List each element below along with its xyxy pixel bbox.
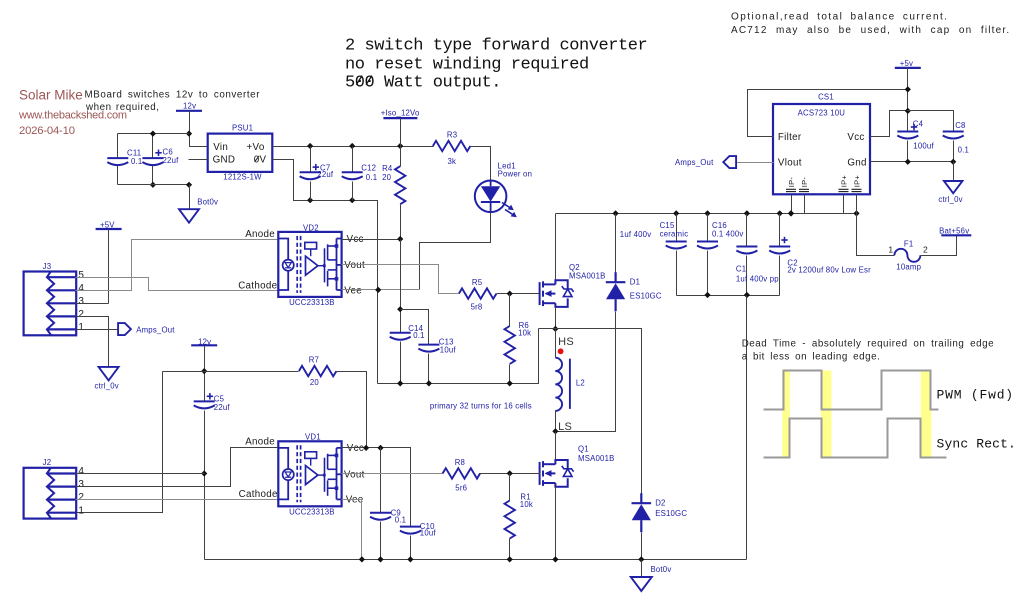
svg-text:PSU1: PSU1 [232, 123, 253, 132]
svg-text:0.1 400v: 0.1 400v [712, 230, 744, 239]
svg-text:Sync Rect.: Sync Rect. [937, 437, 1017, 452]
svg-text:1uf 400v pp: 1uf 400v pp [736, 274, 779, 283]
svg-text:Dead Time - absolutely require: Dead Time - absolutely required on trail… [742, 339, 994, 350]
svg-text:3: 3 [78, 479, 84, 490]
svg-text:10uf: 10uf [440, 346, 457, 355]
svg-text:0.1: 0.1 [131, 157, 142, 166]
svg-text:1: 1 [78, 505, 84, 516]
svg-text:Bot0v: Bot0v [197, 197, 218, 206]
svg-text:D1: D1 [630, 278, 640, 287]
svg-text:Gnd: Gnd [847, 158, 866, 169]
svg-text:Optional,read total balance cu: Optional,read total balance current. [731, 12, 948, 23]
svg-text:a bit less on leading edge.: a bit less on leading edge. [742, 352, 881, 363]
svg-text:UCC23313B: UCC23313B [289, 508, 335, 517]
svg-text:100uf: 100uf [913, 142, 934, 151]
svg-text:1: 1 [888, 245, 893, 255]
svg-text:0.1: 0.1 [366, 173, 377, 182]
svg-text:ctrl_0v: ctrl_0v [95, 381, 119, 390]
svg-text:ACS723 10U: ACS723 10U [798, 109, 846, 118]
svg-text:Anode: Anode [245, 229, 275, 240]
svg-text:PWM (Fwd): PWM (Fwd) [937, 387, 1014, 402]
svg-text:IP-: IP- [787, 177, 796, 188]
svg-text:AC712 may also be used, with c: AC712 may also be used, with cap on filt… [731, 25, 1010, 36]
svg-text:HS: HS [558, 336, 574, 348]
svg-text:Cathode: Cathode [238, 281, 277, 292]
svg-text:Vcc: Vcc [347, 443, 364, 454]
svg-text:UCC23313B: UCC23313B [289, 298, 335, 307]
svg-text:+Vo: +Vo [247, 142, 265, 153]
svg-text:Vee: Vee [344, 286, 362, 297]
svg-text:0.1: 0.1 [958, 145, 969, 154]
svg-text:R8: R8 [455, 458, 465, 467]
svg-text:F1: F1 [904, 240, 914, 249]
svg-text:Vin: Vin [213, 142, 228, 153]
svg-text:VD2: VD2 [303, 224, 319, 233]
svg-text:1uf 400v: 1uf 400v [620, 230, 652, 239]
svg-text:Vcc: Vcc [847, 132, 864, 143]
svg-text:J3: J3 [43, 262, 52, 271]
svg-text:+Iso_12Vo: +Iso_12Vo [381, 108, 420, 117]
svg-text:5r6: 5r6 [455, 484, 467, 493]
svg-text:Amps_Out: Amps_Out [136, 325, 175, 334]
svg-text:ceramic: ceramic [660, 230, 689, 239]
svg-text:2026-04-10: 2026-04-10 [19, 125, 75, 137]
svg-text:ES10GC: ES10GC [630, 292, 662, 301]
svg-text:C1: C1 [736, 264, 746, 273]
svg-text:C4: C4 [913, 120, 924, 129]
svg-text:VD1: VD1 [305, 433, 321, 442]
svg-text:Q1: Q1 [578, 445, 589, 454]
svg-text:Vlout: Vlout [778, 158, 802, 169]
svg-text:MSA001B: MSA001B [578, 454, 615, 463]
svg-text:10k: 10k [518, 329, 531, 338]
svg-text:primary 32 turns for 16 cells: primary 32 turns for 16 cells [430, 402, 532, 411]
svg-text:MSA001B: MSA001B [569, 272, 606, 281]
svg-text:Cathode: Cathode [239, 489, 278, 500]
svg-text:IP+: IP+ [852, 175, 861, 188]
svg-text:22uf: 22uf [214, 403, 231, 412]
svg-text:5r8: 5r8 [471, 302, 483, 311]
svg-text:R4: R4 [382, 164, 393, 173]
svg-text:Vout: Vout [344, 260, 365, 271]
svg-text:ES10GC: ES10GC [655, 509, 687, 518]
svg-text:4: 4 [78, 283, 84, 294]
svg-text:20: 20 [310, 378, 320, 387]
svg-text:Solar Mike: Solar Mike [19, 88, 83, 103]
svg-text:GND: GND [213, 155, 236, 166]
svg-text:12v: 12v [183, 102, 196, 111]
svg-text:www.thebackshed.com: www.thebackshed.com [18, 110, 127, 122]
svg-text:D2: D2 [655, 498, 665, 507]
svg-text:10k: 10k [520, 500, 533, 509]
svg-text:IP-: IP- [800, 177, 809, 188]
svg-text:Amps_Out: Amps_Out [675, 158, 714, 167]
svg-text:0.1: 0.1 [413, 331, 424, 340]
svg-text:3k: 3k [448, 157, 457, 166]
svg-text:Bot0v: Bot0v [651, 565, 672, 574]
svg-text:C12: C12 [361, 164, 376, 173]
svg-text:CS1: CS1 [818, 93, 834, 102]
svg-text:2 switch type forward converte: 2 switch type forward converter [345, 36, 647, 55]
svg-text:22uf: 22uf [163, 156, 180, 165]
svg-text:L2: L2 [576, 378, 585, 387]
svg-text:C8: C8 [955, 121, 965, 130]
svg-text:2: 2 [78, 492, 84, 503]
svg-text:1212S-1W: 1212S-1W [223, 173, 262, 182]
svg-text:4: 4 [78, 466, 84, 477]
svg-text:R5: R5 [472, 278, 483, 287]
svg-text:Filter: Filter [778, 132, 802, 143]
svg-text:ctrl_0v: ctrl_0v [938, 195, 962, 204]
svg-text:IP+: IP+ [839, 175, 848, 188]
svg-text:MBoard switches 12v to convert: MBoard switches 12v to converter [85, 90, 261, 101]
svg-text:2: 2 [78, 309, 84, 320]
svg-text:5: 5 [78, 270, 84, 281]
svg-text:Vout: Vout [344, 469, 365, 480]
svg-text:J2: J2 [43, 458, 52, 467]
svg-text:20: 20 [382, 173, 392, 182]
svg-text:10uf: 10uf [420, 529, 437, 538]
svg-text:0.1: 0.1 [395, 516, 406, 525]
svg-text:Anode: Anode [245, 436, 275, 447]
svg-text:2v 1200uf 80v Low Esr: 2v 1200uf 80v Low Esr [787, 265, 871, 274]
svg-text:no reset winding required: no reset winding required [345, 55, 589, 74]
svg-text:10amp: 10amp [896, 262, 921, 271]
svg-text:LS: LS [558, 421, 572, 433]
svg-text:2: 2 [923, 245, 928, 255]
svg-text:R7: R7 [309, 355, 319, 364]
svg-text:500 Watt output.: 500 Watt output. [345, 73, 501, 92]
svg-text:3: 3 [78, 296, 84, 307]
svg-text:22uf: 22uf [317, 170, 334, 179]
svg-text:Power on: Power on [498, 170, 533, 179]
svg-text:1: 1 [78, 322, 84, 333]
svg-text:R3: R3 [447, 130, 457, 139]
